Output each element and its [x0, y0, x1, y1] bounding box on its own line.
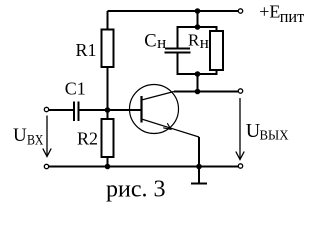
transistor Q1	[130, 85, 200, 138]
terminal input top	[44, 107, 48, 111]
arrow Uvyx	[236, 98, 244, 160]
wire Cn top	[178, 27, 198, 48]
svg-text:ВЫХ: ВЫХ	[260, 129, 289, 144]
svg-text:R1: R1	[76, 40, 97, 60]
svg-text:C: C	[144, 31, 156, 51]
svg-text:R2: R2	[77, 129, 98, 149]
wire input to C1	[49, 109, 73, 111]
wire emitter to ground node	[198, 137, 200, 167]
svg-text:+Е: +Е	[259, 2, 280, 22]
svg-text:н: н	[200, 33, 209, 52]
node RC top junction	[195, 24, 201, 30]
node RC bottom junction	[195, 71, 201, 77]
terminal output bottom	[238, 164, 242, 168]
svg-text:ВХ: ВХ	[27, 133, 44, 149]
wire Cn bottom	[178, 54, 198, 75]
wire collector to output terminal	[174, 91, 238, 93]
capacitor Cn	[144, 31, 190, 52]
svg-text:U: U	[13, 125, 27, 146]
resistor R1	[76, 30, 114, 68]
arrow Uvx	[43, 116, 51, 157]
terminal Epit	[238, 9, 242, 13]
capacitor C1	[65, 79, 86, 121]
label +Epit	[259, 2, 304, 26]
wire bottom rail	[49, 166, 238, 168]
resistor R2	[77, 119, 114, 157]
svg-text:н: н	[157, 33, 166, 52]
resistor Rn	[188, 30, 223, 70]
svg-text:рис. 3: рис. 3	[106, 177, 166, 203]
wire C1 to base node	[80, 109, 108, 111]
node emitter bottom junction	[196, 164, 202, 170]
wire Cn top branch	[197, 11, 199, 27]
label Uvx	[13, 125, 44, 149]
svg-text:C1: C1	[65, 79, 86, 99]
wire R1 bottom to base node	[107, 67, 109, 110]
wire base node to transistor base	[108, 109, 141, 111]
ground	[191, 167, 207, 184]
label Uvyx	[246, 120, 289, 144]
node R2 bottom junction	[105, 164, 111, 170]
svg-text:пит: пит	[280, 7, 305, 26]
wire top rail	[108, 10, 239, 12]
wire collector node link	[197, 74, 199, 92]
terminal input bottom	[44, 164, 48, 168]
wire Rn top	[198, 27, 217, 31]
node top rail junction	[195, 8, 201, 14]
wire Rn bottom	[198, 70, 217, 74]
terminal output top	[238, 89, 242, 93]
wire R1 top	[107, 11, 109, 30]
wire R2 bottom	[107, 157, 109, 167]
svg-text:R: R	[188, 30, 200, 49]
node collector junction	[195, 89, 201, 95]
node base junction	[105, 107, 111, 113]
wire base node to R2	[107, 110, 109, 119]
